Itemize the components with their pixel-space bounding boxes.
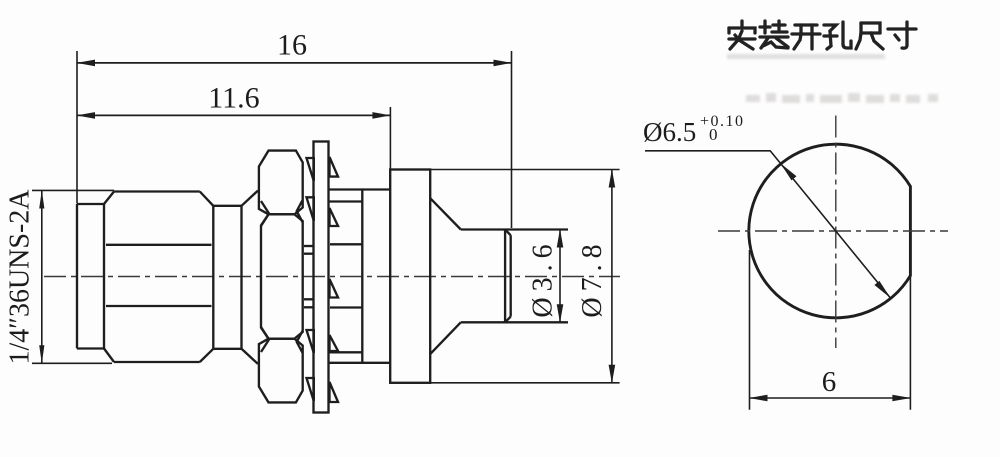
panel nut corner mark upper-left	[261, 201, 269, 226]
panel nut top facet	[259, 151, 303, 215]
thread relief lines left of washer	[304, 245, 315, 247]
centerline axis	[44, 276, 620, 278]
svg-text:Ø3.6: Ø3.6	[528, 238, 559, 317]
char cun	[888, 22, 916, 48]
hex body chamfer top-right	[200, 192, 214, 206]
waist right boundary	[240, 206, 242, 349]
lock washer teeth right side	[330, 157, 339, 177]
dim 6 left arrow	[749, 395, 768, 402]
hex body bottom edge	[114, 361, 200, 363]
hex body chamfer bottom-left	[104, 349, 114, 363]
barrel divider	[361, 190, 363, 363]
char zhuang	[760, 21, 788, 48]
panel nut bottom facet	[259, 339, 303, 403]
waist cylinder bottom	[213, 348, 241, 350]
left cylinder (thread end face)	[76, 204, 78, 349]
dimension 11.6 right arrow	[372, 112, 391, 119]
waist cylinder top	[213, 205, 241, 207]
watermark smudge text remnants	[746, 93, 938, 103]
barrel thread line bottom	[329, 351, 363, 353]
char kong	[824, 22, 851, 49]
title mounting hole dimensions (hand drawn CJK)	[729, 21, 916, 49]
panel nut corner mark upper-right	[297, 200, 303, 222]
mounting hole circle with flats	[749, 144, 911, 318]
hole vertical centerline	[835, 116, 837, 349]
dia 6.5 arrow lower	[874, 281, 890, 298]
end chamfer bottom diag	[505, 317, 511, 323]
svg-text:11.6: 11.6	[208, 82, 259, 115]
svg-text:Ø7.8: Ø7.8	[577, 238, 608, 317]
end cylinder bottom	[461, 321, 568, 323]
dia 7.8 arrow top	[609, 169, 616, 188]
dimension 11.6 left arrow	[77, 112, 96, 119]
thread dim extension line bottom	[32, 362, 112, 364]
hole horizontal centerline	[718, 230, 948, 232]
hex body right boundary	[212, 206, 214, 349]
dimension 16 dim line	[77, 62, 512, 64]
thread dim extension line top	[32, 189, 114, 191]
thread dim arrow bottom	[39, 345, 44, 363]
dia 7.8 arrow bottom	[609, 365, 616, 384]
thread dim line	[41, 190, 43, 363]
dimension 16 left arrow	[77, 60, 96, 67]
panel nut middle facet	[261, 214, 303, 338]
dim 6 extension left	[749, 250, 751, 410]
hex body facet line upper	[106, 244, 212, 246]
dia 3.6 arrow top	[557, 229, 564, 248]
dimension 11.6 extension line right	[389, 107, 391, 170]
char chi	[856, 23, 883, 49]
dimension 16 extension line left	[76, 51, 78, 204]
dia 6.5 leader	[645, 151, 891, 299]
barrel outer bottom	[329, 362, 391, 364]
panel nut corner mark lower-right	[297, 331, 303, 353]
lock washer teeth left side	[307, 158, 314, 181]
waist-to-nut chamfer top	[242, 191, 258, 206]
bulkhead barrel outer top	[329, 188, 391, 190]
svg-text:Ø6.5: Ø6.5	[643, 117, 696, 147]
dim 6 right arrow	[892, 395, 911, 402]
dim 6 dim line	[750, 397, 911, 399]
dim 6 extension right	[909, 277, 911, 410]
barrel inner line lower	[330, 306, 362, 308]
hex nut body chamfer top-left	[104, 192, 114, 205]
svg-text:6: 6	[822, 366, 837, 398]
dia 3.6 arrow bottom	[557, 304, 564, 323]
dia 6.5 arrow upper	[780, 163, 796, 180]
taper top	[430, 198, 461, 229]
end cylinder top	[461, 228, 568, 230]
dimension 16 right arrow	[494, 60, 513, 67]
dia 7.8 extension bottom	[430, 382, 619, 384]
end face	[510, 235, 512, 316]
dimension 16 extension line right	[511, 51, 513, 228]
end cylinder chamfer line	[504, 230, 506, 323]
svg-text:0: 0	[709, 125, 718, 144]
watermark smudge under title	[727, 54, 885, 59]
dimension 11.6 dim line	[77, 114, 390, 116]
barrel inner line upper	[330, 243, 362, 245]
hex body chamfer bottom-right	[200, 349, 214, 362]
hex body facet line lower	[106, 305, 212, 307]
flat washer plate	[314, 142, 329, 413]
dia 3.6 dim line	[559, 230, 561, 323]
dia 7.8 extension top	[430, 169, 619, 171]
dia 7.8 dim line	[611, 170, 613, 383]
taper bottom	[430, 322, 461, 354]
flange	[390, 170, 430, 383]
svg-text:1/4″36UNS-2A: 1/4″36UNS-2A	[5, 189, 36, 365]
svg-text:16: 16	[277, 29, 307, 62]
panel nut corner mark lower-left	[261, 327, 269, 352]
end chamfer top diag	[505, 230, 511, 236]
hex body top edge	[114, 190, 200, 192]
char kai	[792, 25, 820, 49]
svg-text:+0.10: +0.10	[700, 113, 745, 130]
thread dim arrow top	[39, 190, 44, 208]
char an	[729, 21, 755, 49]
waist-to-nut chamfer bottom	[242, 349, 258, 364]
barrel thread line top	[329, 200, 363, 202]
